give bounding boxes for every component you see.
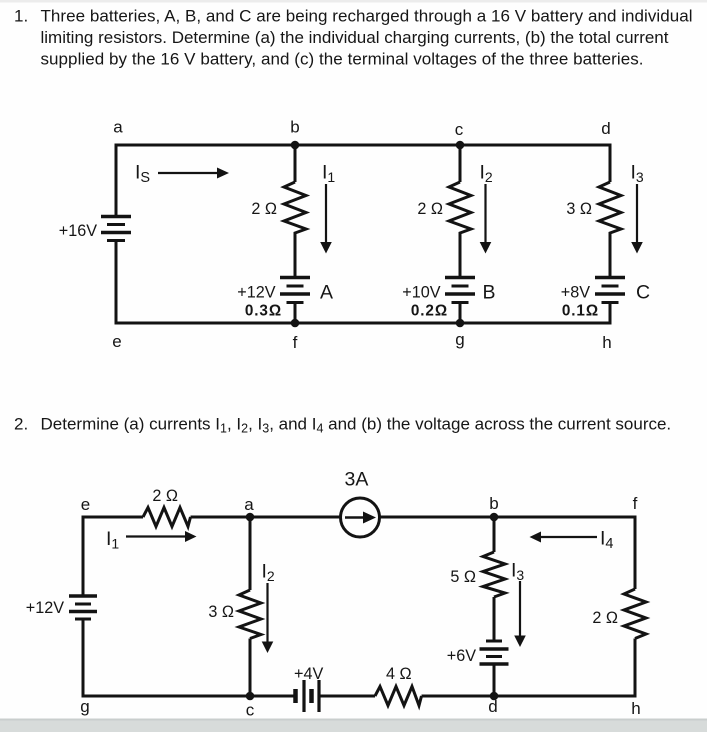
svg-text:B: B [483, 282, 496, 304]
current Is arrow [158, 168, 229, 179]
node d junction dot [490, 692, 499, 701]
svg-text:+4V: +4V [294, 665, 323, 683]
resistor 3ohm branch d [599, 182, 621, 277]
battery +6V [480, 641, 509, 664]
svg-text:a: a [244, 495, 254, 514]
svg-text:+10V: +10V [402, 284, 440, 302]
svg-text:a: a [113, 118, 123, 137]
wire branch a lower [249, 639, 252, 697]
problem 1 text [14, 7, 693, 69]
svg-text:5 Ω: 5 Ω [450, 568, 476, 586]
svg-text:3 Ω: 3 Ω [566, 200, 592, 218]
node b junction dot [490, 513, 499, 522]
wire top a-b-c-d [115, 144, 611, 147]
wire top e to resistor [83, 516, 143, 519]
svg-text:0.3Ω: 0.3Ω [245, 303, 282, 320]
wire 2ohm to h [634, 639, 637, 698]
node g junction dot [456, 319, 465, 328]
svg-text:e: e [112, 332, 121, 351]
svg-text:+8V: +8V [561, 284, 590, 302]
svg-text:2 Ω: 2 Ω [417, 200, 443, 218]
node c junction dot [456, 141, 465, 150]
resistor 5ohm branch b [483, 552, 505, 597]
wire left upper (a to battery) [115, 144, 118, 217]
svg-text:4 Ω: 4 Ω [386, 665, 412, 683]
wire branch c upper [459, 145, 462, 182]
current I1 arrow [126, 531, 197, 542]
resistor 2ohm branch c [449, 182, 471, 277]
svg-text:Determine (a) currents I1, I2,: Determine (a) currents I1, I2, I3, and I… [41, 415, 672, 436]
wire +4V battery to 4ohm resistor [320, 695, 375, 698]
svg-text:e: e [81, 495, 90, 514]
battery A (+12V 0.3ohm) [280, 278, 310, 325]
svg-text:f: f [293, 333, 298, 352]
node c junction dot [246, 692, 255, 701]
svg-text:b: b [489, 494, 498, 513]
svg-text:3 Ω: 3 Ω [208, 603, 234, 621]
svg-text:c: c [455, 120, 464, 139]
bottom gray band [0, 719, 707, 732]
node b junction dot [291, 141, 300, 150]
svg-text:Three batteries, A, B, and C a: Three batteries, A, B, and C are being r… [41, 7, 693, 26]
svg-text:A: A [320, 282, 333, 304]
svg-text:+6V: +6V [447, 647, 476, 665]
node f junction dot [291, 319, 300, 328]
current I2 arrow [262, 583, 274, 653]
svg-text:+16V: +16V [59, 222, 97, 240]
current I1 arrow [320, 184, 332, 254]
battery +16V [101, 217, 131, 241]
wire current source to f [380, 516, 637, 519]
wire branch b upper [493, 517, 496, 552]
wire bottom e-f-g-h [115, 322, 611, 325]
resistor 2ohm top [143, 508, 191, 527]
svg-text:+12V: +12V [26, 599, 64, 617]
wire left lower battery to g [82, 620, 85, 698]
svg-text:d: d [601, 119, 610, 138]
svg-text:2.: 2. [14, 415, 28, 434]
svg-text:limiting resistors. Determine: limiting resistors. Determine (a) the in… [41, 28, 669, 47]
resistor 4ohm bottom [375, 687, 422, 706]
wire resistor to current source [191, 516, 341, 519]
resistor 2ohm right [624, 589, 646, 639]
wire branch b upper [294, 145, 297, 182]
svg-text:b: b [290, 118, 299, 137]
svg-text:1.: 1. [14, 7, 28, 26]
svg-text:g: g [80, 697, 89, 716]
svg-text:h: h [602, 333, 611, 352]
svg-text:+12V: +12V [237, 284, 275, 302]
wire left upper e to battery [82, 516, 85, 597]
battery B (+10V 0.2ohm) [445, 278, 475, 325]
top edge strip [0, 0, 707, 3]
wire branch a upper [249, 517, 252, 590]
wire bottom g to +4V battery [82, 695, 294, 698]
wire left lower (battery to e) [115, 240, 118, 325]
svg-text:2 Ω: 2 Ω [592, 609, 618, 627]
svg-text:f: f [633, 494, 638, 513]
wire 4ohm to h [422, 695, 637, 698]
wire right d-h branch upper [609, 144, 612, 183]
current I3 arrow [631, 184, 643, 254]
svg-text:c: c [246, 701, 255, 720]
svg-text:0.2Ω: 0.2Ω [411, 303, 448, 320]
current I2 arrow [480, 184, 492, 254]
resistor 3ohm branch a [239, 590, 261, 639]
battery +12V (circuit 2) [69, 596, 97, 619]
svg-text:d: d [488, 697, 497, 716]
svg-text:C: C [636, 282, 650, 304]
current source 3A [341, 498, 380, 537]
svg-text:3A: 3A [345, 469, 369, 491]
svg-text:h: h [631, 699, 640, 718]
wire +6V battery to d [493, 665, 496, 697]
battery +4V (horizontal) [296, 680, 320, 712]
svg-text:0.1Ω: 0.1Ω [562, 303, 599, 320]
svg-text:2 Ω: 2 Ω [152, 487, 178, 505]
node a junction dot [246, 513, 255, 522]
svg-text:g: g [455, 330, 464, 349]
wire right f to 2ohm [634, 516, 637, 590]
svg-text:2 Ω: 2 Ω [251, 200, 277, 218]
resistor 2ohm branch b [284, 182, 306, 277]
current I4 arrow [530, 532, 598, 543]
problem 2 text [14, 415, 671, 436]
svg-text:supplied by the 16 V battery,: supplied by the 16 V battery, and (c) th… [41, 50, 644, 69]
wire 5ohm to +6V battery [493, 597, 496, 641]
current I3 arrow [514, 581, 526, 647]
battery C (+8V 0.1ohm) [595, 278, 625, 325]
